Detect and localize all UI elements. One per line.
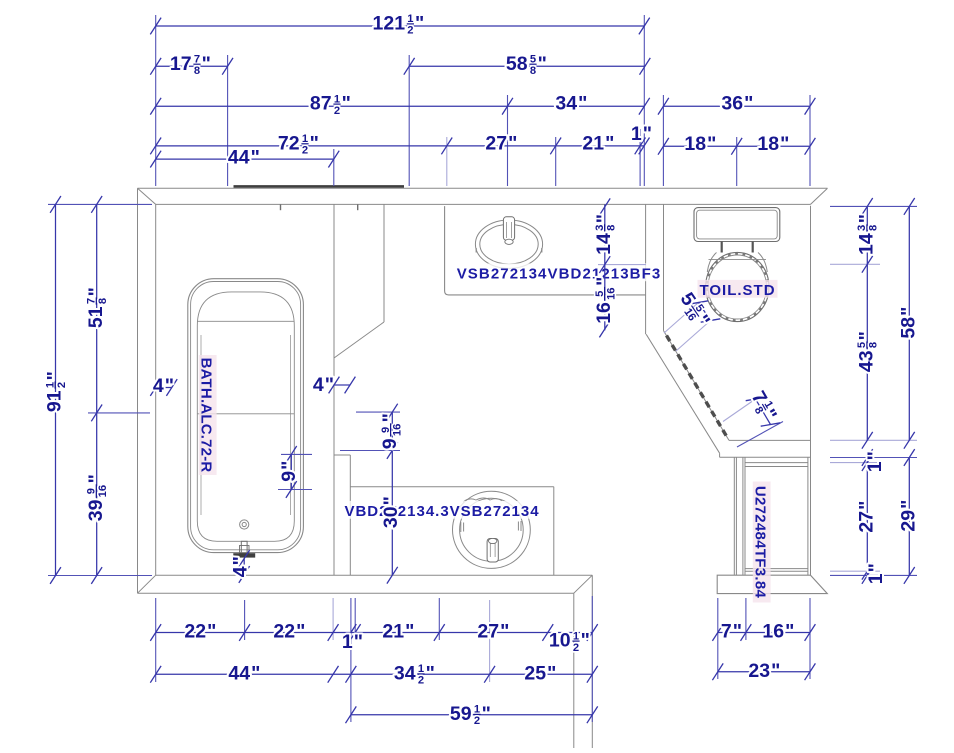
extension line right: y=264.3 bbox=[830, 263, 880, 265]
dim text: 18 right bbox=[757, 133, 789, 155]
svg-text:9: 9 bbox=[379, 438, 401, 449]
dim text: 1 top bbox=[631, 123, 652, 145]
svg-text:27: 27 bbox=[477, 621, 499, 643]
dim line: bottom row 7/16 bbox=[712, 624, 815, 641]
dim text: 39-9/16 bbox=[85, 474, 109, 521]
extension line bottom: x=439.3 bbox=[438, 598, 440, 640]
svg-text:": " bbox=[202, 53, 211, 75]
svg-text:8: 8 bbox=[194, 65, 200, 77]
svg-text:": " bbox=[785, 621, 794, 643]
dim text: 1 right top bbox=[864, 451, 886, 472]
dim text: 27 right bbox=[856, 501, 878, 533]
svg-text:2: 2 bbox=[56, 382, 68, 388]
extension stub: 16-5/16 dim bbox=[598, 264, 646, 266]
svg-text:58: 58 bbox=[898, 317, 920, 339]
svg-text:": " bbox=[415, 12, 424, 34]
extension line right: y=440.3 bbox=[830, 439, 917, 441]
fixture: tall cabinet U272484TF3.84 bbox=[734, 457, 808, 575]
wall: toilet room bottom wall bbox=[720, 440, 811, 457]
dim text: 16 bbox=[762, 621, 794, 643]
dim text: 22 right bbox=[273, 621, 305, 643]
svg-text:51: 51 bbox=[85, 306, 107, 328]
svg-text:2: 2 bbox=[573, 642, 579, 654]
extension line: x=333.8 (44 top) bbox=[333, 149, 335, 186]
svg-text:": " bbox=[251, 663, 260, 685]
extension line right: y=571.2 bbox=[830, 570, 880, 572]
svg-text:8: 8 bbox=[605, 225, 617, 231]
svg-text:": " bbox=[230, 556, 252, 565]
dim line: 1 / 27 / 1 right bbox=[862, 449, 873, 584]
svg-text:87: 87 bbox=[310, 93, 332, 115]
fixture: lower vanity sink rings bbox=[453, 491, 531, 568]
extension line bottom: x=333.1 bbox=[332, 598, 334, 640]
dim text: 9-9/16 bbox=[379, 413, 403, 449]
dim line: 4 at knee wall bbox=[329, 377, 356, 394]
svg-text:36: 36 bbox=[721, 93, 743, 115]
svg-text:": " bbox=[278, 461, 300, 470]
fixture: bathtub inner bowl bbox=[197, 292, 294, 541]
svg-text:VBD272134.3VSB272134: VBD272134.3VSB272134 bbox=[344, 503, 539, 520]
dim text: 4 left wall bbox=[153, 375, 174, 397]
svg-text:": " bbox=[325, 374, 334, 396]
svg-text:": " bbox=[354, 631, 363, 653]
extension stubs: 9 dim at tub edge bbox=[278, 454, 312, 489]
wall: upper partition stub next to tub bbox=[334, 204, 384, 575]
label: VBD272134.3VSB272134 bbox=[343, 501, 542, 520]
dim line: 7-1/8 angled bbox=[746, 397, 781, 426]
svg-text:TOIL.STD: TOIL.STD bbox=[699, 282, 775, 299]
extension line: x=640.1 (1 left) bbox=[639, 129, 641, 186]
fixture: tall cabinet base bbox=[717, 575, 827, 593]
extension line: x=810 toilet room right bbox=[809, 95, 811, 186]
dim text: 1 bottom bbox=[342, 631, 363, 653]
dim text: 91-1/2 bbox=[44, 371, 68, 412]
svg-text:": " bbox=[744, 93, 753, 115]
dim line: 36 row bbox=[658, 98, 815, 115]
svg-text:44: 44 bbox=[228, 146, 250, 168]
extension line right: y=462.6 bbox=[830, 462, 880, 464]
dim line: 17-7/8 bbox=[150, 58, 233, 75]
dim text: 87-1/2 bbox=[310, 93, 351, 117]
extension line right: y=206.4 bbox=[830, 205, 917, 207]
svg-text:": " bbox=[380, 496, 402, 505]
svg-text:2: 2 bbox=[334, 105, 340, 117]
svg-text:59: 59 bbox=[450, 703, 472, 725]
fixture: lower vanity faucet bbox=[487, 538, 498, 562]
dim text: 17-7/8 bbox=[170, 53, 211, 77]
svg-text:23: 23 bbox=[748, 660, 770, 682]
dim text: 27 top bbox=[485, 132, 517, 154]
svg-text:": " bbox=[547, 663, 556, 685]
label: BATH.ALC.72-R bbox=[197, 355, 216, 475]
svg-text:72: 72 bbox=[278, 132, 300, 154]
extension lines: 5-5/16 angled dim bbox=[664, 303, 711, 352]
extension line: left interior x=155.7 (top) bbox=[155, 15, 157, 186]
svg-text:BATH.ALC.72-R: BATH.ALC.72-R bbox=[197, 358, 214, 473]
extension line bottom: x=592.3 bbox=[591, 596, 593, 722]
svg-text:1: 1 bbox=[342, 631, 353, 653]
svg-text:": " bbox=[593, 277, 615, 286]
dim text: 27 bottom bbox=[477, 621, 509, 643]
svg-text:": " bbox=[296, 621, 305, 643]
svg-text:16: 16 bbox=[762, 621, 784, 643]
fixture: bathtub interior chord lines bbox=[197, 321, 294, 515]
svg-text:": " bbox=[207, 621, 216, 643]
fixture: toilet bowl bbox=[706, 252, 769, 321]
label: TOIL.STD bbox=[698, 280, 778, 299]
svg-text:": " bbox=[310, 132, 319, 154]
dim line: bottom row 44/34-1/2/25 bbox=[150, 666, 597, 683]
dim text: 44 top bbox=[228, 146, 260, 168]
dim text: 16-5/16 interior bbox=[593, 277, 617, 324]
svg-text:2: 2 bbox=[474, 715, 480, 727]
extension line: x=663.4 toilet room left bbox=[662, 95, 664, 186]
wall: top exterior wall bbox=[138, 188, 828, 204]
dim text: 22 left bbox=[184, 621, 216, 643]
svg-text:": " bbox=[405, 621, 414, 643]
svg-text:58: 58 bbox=[506, 53, 528, 75]
svg-text:44: 44 bbox=[228, 663, 250, 685]
fixture: toilet tank bbox=[694, 208, 780, 242]
dim text: 4 knee wall bbox=[313, 374, 334, 396]
dim text: 5-5/16 bbox=[674, 289, 714, 333]
svg-text:": " bbox=[865, 563, 887, 572]
dim line: bottom row 22/22/1/21/27/10-1/2 bbox=[150, 624, 597, 641]
svg-text:U272484TF3.84: U272484TF3.84 bbox=[751, 486, 768, 599]
svg-text:": " bbox=[581, 630, 590, 652]
svg-text:34: 34 bbox=[394, 663, 416, 685]
dim text: 14-3/8 right bbox=[856, 214, 880, 255]
svg-text:17: 17 bbox=[170, 53, 192, 75]
svg-text:7: 7 bbox=[721, 621, 732, 643]
svg-text:": " bbox=[165, 375, 174, 397]
extension line bottom: x=350.9 bbox=[350, 598, 352, 722]
dim line: 87-1/2 and 34 row bbox=[150, 98, 649, 115]
svg-text:": " bbox=[44, 371, 66, 380]
svg-text:25: 25 bbox=[524, 663, 546, 685]
fixture: upper vanity faucet bbox=[503, 217, 514, 245]
svg-text:": " bbox=[707, 133, 716, 155]
wall: toilet room right wall bbox=[810, 206, 812, 576]
dim line: 4 at tub faucet bbox=[239, 550, 250, 583]
dim line: 58 right bbox=[904, 198, 915, 449]
svg-text:1: 1 bbox=[865, 573, 887, 584]
extension stubs: 9-9/16 and 30 dims bbox=[340, 412, 400, 450]
label: U272484TF3.84 bbox=[751, 482, 770, 603]
svg-text:91: 91 bbox=[44, 390, 66, 412]
svg-text:": " bbox=[643, 123, 652, 145]
dim line: 91-1/2 left bbox=[50, 196, 61, 584]
fixture: upper vanity sink rings bbox=[475, 220, 542, 268]
svg-text:": " bbox=[771, 660, 780, 682]
extension line bottom: x=717.8 cabinet bbox=[717, 598, 719, 679]
extension line: x=507.5 (87-1/2 right) bbox=[507, 95, 509, 186]
extension line: x=555.7 (27 right) bbox=[555, 137, 557, 186]
svg-text:": " bbox=[864, 451, 886, 460]
svg-text:10: 10 bbox=[549, 630, 571, 652]
svg-text:2: 2 bbox=[418, 675, 424, 687]
svg-text:": " bbox=[856, 331, 878, 340]
extension line left: y=412.9 bbox=[88, 412, 150, 414]
svg-text:39: 39 bbox=[85, 499, 107, 521]
svg-text:": " bbox=[898, 500, 920, 509]
dim text: 7 bbox=[721, 621, 742, 643]
svg-text:VSB272134VBD21213BF3: VSB272134VBD21213BF3 bbox=[457, 266, 662, 283]
dim text: 51-7/8 bbox=[85, 287, 109, 328]
svg-text:34: 34 bbox=[555, 93, 577, 115]
svg-text:27: 27 bbox=[485, 132, 507, 154]
fixture: upper vanity counter VSB272134 bbox=[445, 206, 646, 295]
svg-text:2: 2 bbox=[407, 25, 413, 37]
extension line: x=227.6 (17-7/8) bbox=[227, 55, 229, 186]
dim line: 9 interior bbox=[286, 446, 297, 498]
fixture: lower vanity counter VBD272134.3 bbox=[350, 487, 554, 576]
svg-text:": " bbox=[379, 413, 401, 422]
dim line: 9-9/16 / 30 interior bbox=[387, 404, 398, 584]
extension line left: y=575.5 bbox=[48, 575, 152, 577]
svg-text:": " bbox=[426, 663, 435, 685]
svg-text:22: 22 bbox=[184, 621, 206, 643]
dim line: bottom row 23 bbox=[712, 663, 815, 680]
dim line: 121-1/2 row bbox=[150, 18, 649, 35]
wall: angled wall of toilet room bbox=[646, 331, 729, 454]
dim text: 36 bbox=[721, 93, 753, 115]
extension line right: y=575.4 bbox=[830, 574, 917, 576]
svg-text:4: 4 bbox=[313, 374, 324, 396]
dim text: 18 left bbox=[684, 133, 716, 155]
svg-text:": " bbox=[898, 307, 920, 316]
svg-text:16: 16 bbox=[593, 302, 615, 324]
extension line bottom: x=355.2 bbox=[354, 598, 356, 640]
dim line: 72-1/2 / 27 / 21 / 1 row bbox=[150, 138, 649, 155]
extension line bottom: x=155.7 bbox=[155, 598, 157, 682]
extension line right: y=457.5 bbox=[830, 457, 917, 459]
svg-text:": " bbox=[605, 132, 614, 154]
dim line: 44 top bbox=[150, 151, 339, 168]
svg-text:": " bbox=[85, 287, 107, 296]
dim text: 1 right bottom bbox=[865, 563, 887, 584]
extension lines: 7-1/8 angled dim bbox=[723, 399, 783, 447]
svg-text:22: 22 bbox=[273, 621, 295, 643]
dim line: 18 / 18 row bbox=[658, 138, 815, 155]
svg-text:18: 18 bbox=[757, 133, 779, 155]
dim text: 59-1/2 bbox=[450, 703, 491, 727]
extension line bottom: x=810 cabinet bbox=[809, 598, 811, 679]
wall: dark lintel segment on top wall (tub alcove) bbox=[234, 185, 405, 188]
svg-text:": " bbox=[482, 703, 491, 725]
svg-text:18: 18 bbox=[684, 133, 706, 155]
wall: knee wall right face bbox=[334, 455, 350, 575]
svg-text:": " bbox=[856, 214, 878, 223]
svg-text:": " bbox=[538, 53, 547, 75]
svg-text:43: 43 bbox=[856, 350, 878, 372]
dim text: 34-1/2 bbox=[394, 663, 435, 687]
dim text: 58 bbox=[898, 307, 920, 339]
svg-text:2: 2 bbox=[302, 145, 308, 157]
wall: bottom exterior wall bbox=[138, 575, 593, 593]
svg-text:9: 9 bbox=[278, 471, 300, 482]
label: VSB272134VBD21213BF3 bbox=[456, 263, 662, 282]
svg-text:30: 30 bbox=[380, 506, 402, 528]
dim text: 21 bottom bbox=[382, 621, 414, 643]
svg-text:29: 29 bbox=[898, 510, 920, 532]
dim line: 5-5/16 angled bbox=[689, 301, 721, 322]
dim text: 4 tub faucet bbox=[230, 556, 252, 577]
fixture: bathtub faucet bbox=[233, 541, 255, 557]
dim text: 58-5/8 bbox=[506, 53, 547, 77]
wall: framing ticks on top wall inner face bbox=[281, 204, 358, 210]
dim text: 72-1/2 bbox=[278, 132, 319, 156]
dim line: 29 right bbox=[904, 449, 915, 584]
svg-text:": " bbox=[593, 214, 615, 223]
wall: left exterior wall bbox=[138, 188, 156, 593]
extension line: x=409.2 (58-5/8 left) bbox=[408, 55, 410, 186]
svg-text:8: 8 bbox=[868, 225, 880, 231]
extension line: x=736.7 (18/18) bbox=[736, 137, 738, 186]
wall: hatch on angled wall bbox=[667, 336, 728, 438]
svg-text:": " bbox=[733, 621, 742, 643]
dim text: 10-1/2 bbox=[549, 630, 590, 654]
svg-text:8: 8 bbox=[530, 65, 536, 77]
dim text: 34 bbox=[555, 93, 587, 115]
wall: doorway jamb walls going south bbox=[574, 575, 593, 748]
svg-text:14: 14 bbox=[856, 233, 878, 255]
dim line: 14-3/8 / 43-5/8 right bbox=[862, 198, 873, 449]
svg-text:14: 14 bbox=[593, 233, 615, 255]
svg-text:": " bbox=[85, 474, 107, 483]
dim line: 51-7/8 / 39-9/16 left bbox=[91, 196, 102, 584]
svg-text:": " bbox=[578, 93, 587, 115]
dim text: 21 top bbox=[582, 132, 614, 154]
svg-text:": " bbox=[251, 146, 260, 168]
fixture: bathtub drain bbox=[240, 520, 249, 529]
svg-text:": " bbox=[780, 133, 789, 155]
extension line: x=446.8 (72-1/2 right) bbox=[446, 137, 448, 186]
wall: partition between tub area and toilet room bbox=[646, 204, 664, 334]
svg-text:": " bbox=[856, 501, 878, 510]
fixture: bathtub BATH.ALC.72-R outline bbox=[188, 279, 304, 553]
dim text: 30 bbox=[380, 496, 402, 528]
fixture: toilet connectors bbox=[722, 242, 753, 253]
svg-text:16: 16 bbox=[605, 287, 617, 299]
svg-text:4: 4 bbox=[153, 375, 164, 397]
svg-text:21: 21 bbox=[582, 132, 604, 154]
svg-text:8: 8 bbox=[97, 298, 109, 304]
svg-text:": " bbox=[500, 621, 509, 643]
svg-text:16: 16 bbox=[97, 485, 109, 497]
extension line left: y=204.4 bbox=[48, 203, 152, 205]
extension line: x=644.3 main right bbox=[643, 15, 645, 186]
dim line: bottom row 59-1/2 bbox=[346, 706, 598, 723]
dim text: 43-5/8 bbox=[856, 331, 880, 372]
dim text: 9 bbox=[278, 461, 300, 482]
svg-text:": " bbox=[508, 132, 517, 154]
dim text: 25 bbox=[524, 663, 556, 685]
svg-text:8: 8 bbox=[868, 342, 880, 348]
dim text: 29 bbox=[898, 500, 920, 532]
svg-text:16: 16 bbox=[391, 424, 403, 436]
dim line: 14-3/8 / 16-5/16 interior bbox=[599, 198, 610, 337]
dim line: 58-5/8 bbox=[404, 58, 651, 75]
extension line bottom: x=489.6 sink centre bbox=[489, 600, 491, 682]
svg-text:": " bbox=[342, 93, 351, 115]
svg-text:121: 121 bbox=[373, 12, 406, 34]
dim text: 14-3/8 interior bbox=[593, 214, 617, 255]
svg-text:4: 4 bbox=[230, 566, 252, 577]
dim text: 7-1/8 bbox=[745, 387, 781, 425]
dim text: 44 bottom bbox=[228, 663, 260, 685]
extension line bottom: x=244.6 bbox=[244, 600, 246, 640]
dim line: 4 at left wall bbox=[150, 379, 177, 396]
svg-text:27: 27 bbox=[856, 511, 878, 533]
dim text: 23 bbox=[748, 660, 780, 682]
svg-text:1: 1 bbox=[631, 123, 642, 145]
svg-text:21: 21 bbox=[382, 621, 404, 643]
svg-text:1: 1 bbox=[864, 461, 886, 472]
dim text: 121-1/2 bbox=[373, 12, 425, 36]
extension line bottom: x=745.9 cabinet bbox=[745, 598, 747, 640]
